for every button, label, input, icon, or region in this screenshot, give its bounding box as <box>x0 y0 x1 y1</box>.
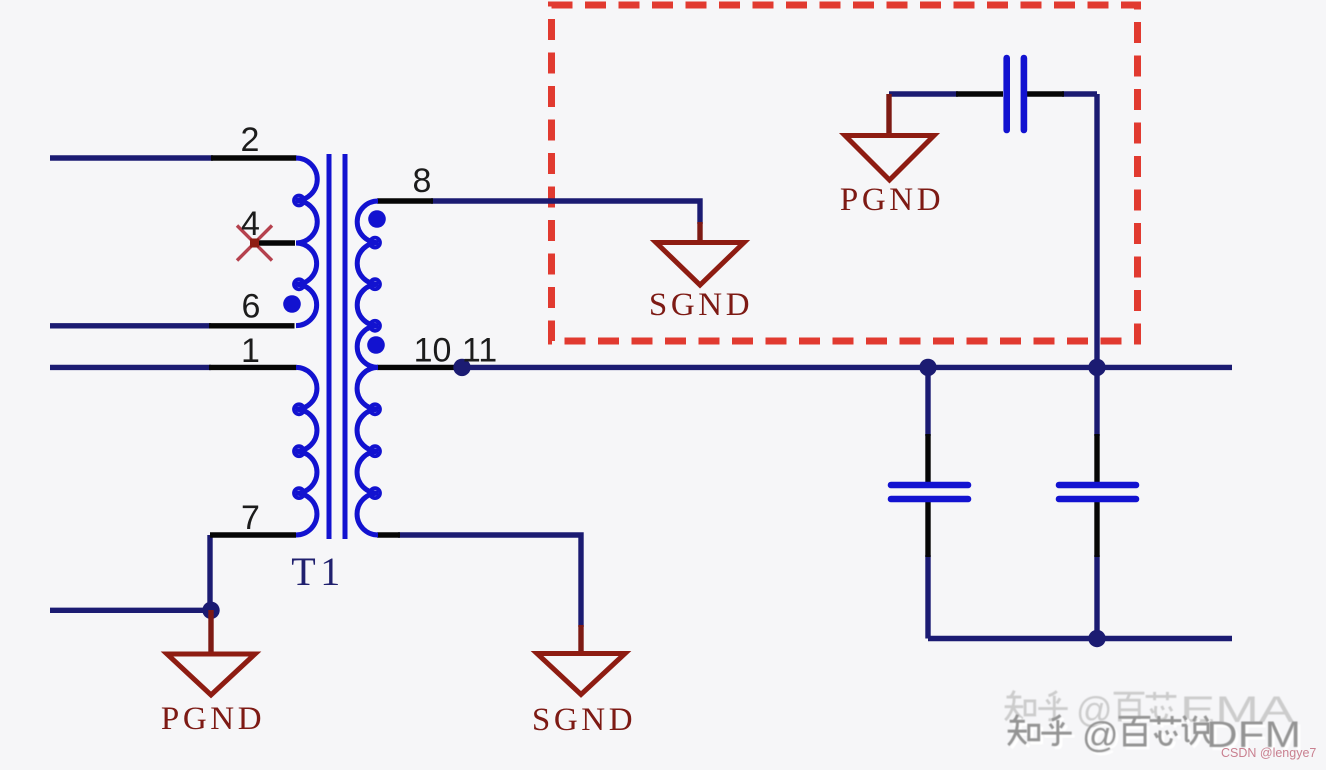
winding curl <box>370 404 380 414</box>
svg-text:6: 6 <box>242 288 261 326</box>
transformer T1 secondary lower winding pins 11-bottom <box>357 367 378 535</box>
ground PGND in box triangle <box>845 136 934 181</box>
svg-text:1: 1 <box>241 332 260 370</box>
winding curl <box>370 446 380 456</box>
red dashed isolation boundary box <box>552 5 1138 341</box>
winding curl <box>294 488 304 498</box>
capacitor C1 right lead stub <box>1027 91 1064 96</box>
wire pin7 vertical <box>207 535 212 610</box>
pin 6 stub <box>209 323 295 328</box>
winding curl <box>370 488 380 498</box>
wire capacitor C2 bottom vertical <box>925 555 930 639</box>
ground PGND in box lead <box>886 94 891 136</box>
capacitor C1 plates <box>1003 58 1010 130</box>
pin 7 stub <box>210 532 296 537</box>
watermark zhihu dark emboss white layer <box>1011 718 1213 748</box>
capacitor C2 plates <box>891 482 968 489</box>
wire capacitor C3 branch vertical through box <box>1094 94 1099 436</box>
svg-text:T1: T1 <box>291 549 344 594</box>
wire capacitor C2 top vertical <box>925 367 930 436</box>
ground SGND in box triangle <box>656 243 744 286</box>
ground SGND bottom triangle <box>537 654 625 695</box>
svg-text:SGND: SGND <box>649 287 753 323</box>
capacitor C3 bottom lead stub <box>1094 502 1099 557</box>
wire pin1 left <box>50 365 211 370</box>
svg-text:@: @ <box>1082 714 1119 755</box>
svg-text:11: 11 <box>462 332 497 370</box>
ground SGND bottom lead <box>578 625 583 654</box>
wire pin6 left <box>50 323 211 328</box>
capacitor C2 top lead stub <box>925 434 930 482</box>
svg-text:10: 10 <box>414 332 452 370</box>
watermark zhihu dark gray layer <box>1008 715 1210 745</box>
watermark zhihu light echo <box>1005 691 1177 720</box>
pin 1 stub <box>209 365 297 370</box>
pin 2 stub <box>211 155 297 160</box>
transformer T1 core line right <box>343 154 348 539</box>
wire capacitor C3 bottom vertical <box>1094 555 1099 639</box>
polarity dot pin 6 <box>283 295 301 313</box>
svg-text:8: 8 <box>413 162 432 200</box>
polarity dot pin 11 <box>367 336 385 354</box>
capacitor C1 left lead stub <box>956 91 1003 96</box>
winding curl <box>294 196 304 206</box>
svg-text:2: 2 <box>241 121 260 159</box>
junction dot C3 top branch <box>1088 359 1105 376</box>
winding curl <box>294 446 304 456</box>
transformer T1 core line left <box>327 154 332 539</box>
winding curl <box>294 404 304 414</box>
wire bottom-right pin to SGND <box>398 535 581 627</box>
polarity dot pin 8 <box>368 210 386 228</box>
winding curl <box>370 321 380 331</box>
svg-text:CSDN @lengye7: CSDN @lengye7 <box>1221 746 1316 760</box>
pin 10-11 stub <box>377 365 456 370</box>
wire capacitor C1 right <box>1062 91 1097 96</box>
junction dot bottom-left PGND <box>202 602 219 619</box>
winding curl <box>370 279 380 289</box>
svg-text:PGND: PGND <box>840 182 944 218</box>
wire bottom-left to PGND junction <box>50 608 211 613</box>
wire bottom bus <box>928 636 1232 641</box>
svg-text:4: 4 <box>241 205 260 243</box>
wire pin8 to SGND corner <box>431 201 700 224</box>
wire capacitor C1 left <box>889 91 958 96</box>
pin 4 stub <box>254 240 295 245</box>
capacitor C2 bottom lead stub <box>925 502 930 557</box>
transformer T1 primary lower winding pins 1-7 <box>296 367 317 535</box>
pin 8 stub <box>377 198 433 203</box>
winding curl <box>294 279 304 289</box>
junction dot C2 top <box>919 359 936 376</box>
transformer T1 primary upper winding pins 2-4-6 <box>296 158 317 326</box>
svg-text:PGND: PGND <box>161 701 265 737</box>
wire main output net from pins 10-11 <box>455 365 1232 370</box>
svg-text:7: 7 <box>241 499 260 537</box>
junction dot C3 bottom <box>1088 630 1105 647</box>
junction dot pins 10-11 <box>453 359 470 376</box>
ground PGND bottom lead <box>208 610 213 655</box>
no-connect X at pin 4 <box>237 226 272 261</box>
transformer T1 secondary upper winding pins 8-10 <box>357 201 378 367</box>
svg-text:SGND: SGND <box>532 702 636 738</box>
ground PGND bottom triangle <box>167 654 255 695</box>
ground SGND in box lead <box>697 222 702 244</box>
capacitor C3 top lead stub <box>1094 434 1099 482</box>
winding curl <box>370 238 380 248</box>
wire pin2 left <box>50 155 213 160</box>
pin bottom-right stub <box>377 532 400 537</box>
capacitor C3 plates <box>1059 482 1136 489</box>
